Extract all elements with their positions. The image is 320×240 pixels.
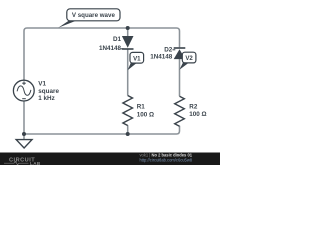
svg-text:100 Ω: 100 Ω [137, 111, 154, 118]
svg-text:V square wave: V square wave [72, 12, 116, 19]
svg-text:square: square [38, 88, 59, 95]
svg-text:R2: R2 [189, 103, 198, 110]
svg-text:V1: V1 [133, 55, 141, 62]
svg-text:V1: V1 [38, 81, 46, 88]
svg-text:1 kHz: 1 kHz [38, 95, 54, 102]
svg-text:1N4148: 1N4148 [99, 45, 122, 52]
svg-text:D1: D1 [113, 36, 122, 43]
svg-text:V2: V2 [185, 55, 193, 62]
svg-text:100 Ω: 100 Ω [189, 111, 206, 118]
svg-text:LAB: LAB [30, 161, 41, 165]
svg-text:R1: R1 [137, 104, 146, 111]
svg-text:1N4148: 1N4148 [150, 54, 173, 61]
svg-text:http://circuitlab.com/c6cu5w8: http://circuitlab.com/c6cu5w8 [140, 158, 193, 163]
svg-text:D2: D2 [164, 47, 173, 54]
